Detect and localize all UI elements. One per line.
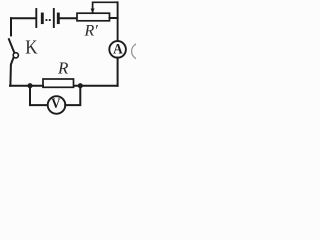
wire top-left horizontal [11, 17, 36, 19]
wire switch to bottom-left corner [10, 58, 13, 86]
wire bottom horizontal right segment [74, 85, 118, 87]
svg-text:V: V [51, 96, 60, 112]
svg-text:A: A [113, 41, 123, 58]
artifact faint arc at right edge [132, 43, 148, 59]
switch K blade [9, 39, 15, 53]
svg-text:K: K [25, 36, 38, 59]
battery B1 long plate 2 [53, 9, 55, 27]
resistor R body [43, 79, 74, 87]
wire left vertical top (corner to switch) [10, 18, 12, 35]
rheostat R' body [77, 13, 110, 21]
wire battery to rheostat [60, 17, 77, 19]
wire voltmeter branch left [30, 86, 48, 105]
battery B1 short thick plate 1 [41, 14, 44, 23]
wire bottom horizontal left segment [10, 85, 43, 87]
node junction dot left [27, 83, 32, 88]
battery B1 short thick plate 2 [57, 14, 60, 23]
wire wiper to ammeter (right vertical) [117, 2, 119, 41]
voltmeter U2 circle [48, 96, 66, 114]
battery ellipsis dots [46, 19, 51, 21]
battery B1 long plate 1 [35, 9, 37, 27]
rheostat wiper arrow [93, 2, 118, 13]
node junction dot right [78, 83, 83, 88]
ammeter U1 circle [109, 41, 126, 58]
svg-text:R: R [57, 58, 69, 77]
svg-text:R′: R′ [84, 23, 99, 40]
switch K pivot circle [13, 53, 18, 58]
wire voltmeter branch right [65, 86, 80, 105]
wire rheostat right stub [110, 17, 118, 19]
wire ammeter to bottom-right corner [117, 58, 119, 86]
